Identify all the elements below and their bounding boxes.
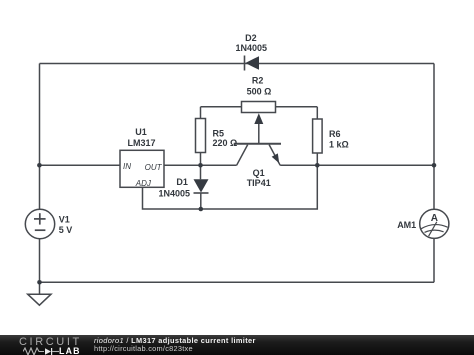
svg-text:U1: U1 <box>135 127 147 137</box>
svg-text:220 Ω: 220 Ω <box>213 138 238 148</box>
svg-text:TIP41: TIP41 <box>247 178 271 188</box>
svg-text:LM317: LM317 <box>127 138 155 148</box>
svg-text:OUT: OUT <box>145 163 163 172</box>
svg-text:R6: R6 <box>329 129 341 139</box>
svg-text:1N4005: 1N4005 <box>159 188 191 198</box>
svg-text:A: A <box>431 213 438 224</box>
svg-text:Q1: Q1 <box>253 168 265 178</box>
svg-text:ADJ: ADJ <box>135 179 152 188</box>
svg-text:1 kΩ: 1 kΩ <box>329 140 349 150</box>
svg-text:IN: IN <box>123 162 131 171</box>
svg-text:V1: V1 <box>59 215 70 225</box>
svg-text:D2: D2 <box>245 33 257 43</box>
svg-text:500 Ω: 500 Ω <box>247 86 272 96</box>
svg-text:D1: D1 <box>176 177 188 187</box>
svg-text:1N4005: 1N4005 <box>236 43 268 53</box>
svg-text:AM1: AM1 <box>397 220 416 230</box>
svg-text:5 V: 5 V <box>59 225 73 235</box>
svg-text:R2: R2 <box>252 75 264 85</box>
svg-text:R5: R5 <box>213 128 225 138</box>
